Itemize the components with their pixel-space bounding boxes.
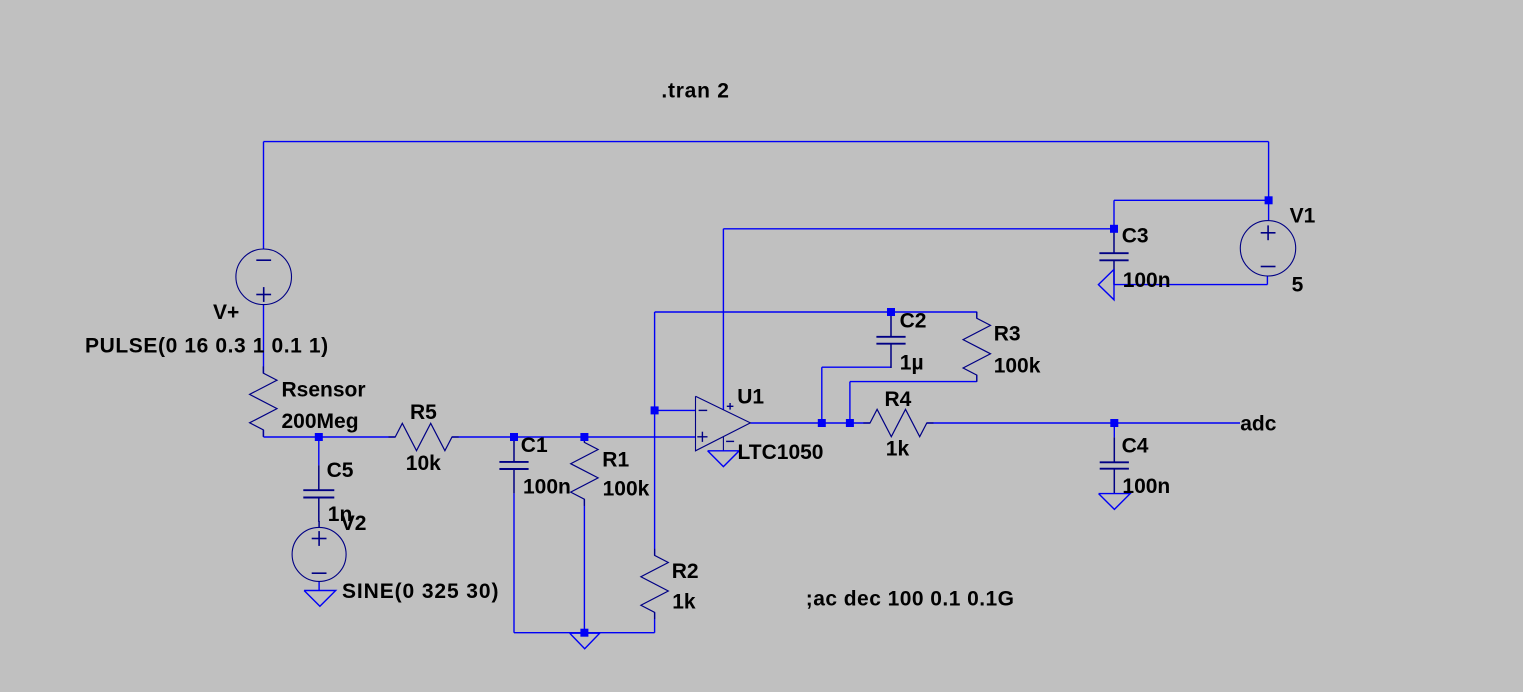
svg-text:R4: R4 <box>885 388 912 411</box>
svg-text:100k: 100k <box>603 478 650 501</box>
svg-text:100n: 100n <box>523 476 571 499</box>
svg-text:R5: R5 <box>410 401 437 424</box>
svg-text:1k: 1k <box>886 437 910 460</box>
svg-text:C1: C1 <box>521 434 548 457</box>
svg-text:C4: C4 <box>1122 434 1149 457</box>
svg-text:V1: V1 <box>1290 205 1316 228</box>
svg-text:1k: 1k <box>672 591 696 614</box>
svg-text:C2: C2 <box>900 310 927 333</box>
svg-text:10k: 10k <box>406 452 441 475</box>
svg-text:C5: C5 <box>327 459 354 482</box>
svg-text:5: 5 <box>1292 274 1304 297</box>
svg-text:V+: V+ <box>213 301 239 324</box>
svg-text:100k: 100k <box>994 354 1041 377</box>
svg-text:;ac dec 100 0.1 0.1G: ;ac dec 100 0.1 0.1G <box>806 588 1015 611</box>
svg-text:100n: 100n <box>1123 269 1171 292</box>
svg-text:PULSE(0 16 0.3 1 0.1 1): PULSE(0 16 0.3 1 0.1 1) <box>85 335 329 358</box>
svg-text:LTC1050: LTC1050 <box>738 441 824 464</box>
svg-text:100n: 100n <box>1122 475 1170 498</box>
svg-text:adc: adc <box>1240 413 1277 436</box>
svg-text:R1: R1 <box>602 449 629 472</box>
svg-text:.tran 2: .tran 2 <box>661 79 729 102</box>
svg-text:SINE(0 325 30): SINE(0 325 30) <box>342 580 499 603</box>
svg-text:200Meg: 200Meg <box>282 410 359 433</box>
svg-text:1µ: 1µ <box>900 352 924 375</box>
svg-text:U1: U1 <box>737 385 764 408</box>
svg-text:Rsensor: Rsensor <box>282 379 366 402</box>
svg-text:C3: C3 <box>1122 224 1149 247</box>
svg-text:V2: V2 <box>341 512 367 535</box>
svg-text:R2: R2 <box>672 560 699 583</box>
svg-text:R3: R3 <box>994 322 1021 345</box>
